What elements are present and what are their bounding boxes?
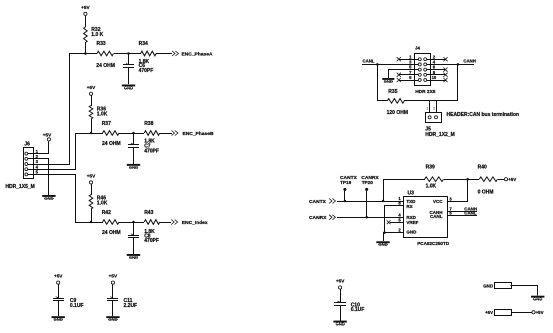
connector J6 body HDR_1X5_M [5, 148, 34, 191]
svg-text:CANL: CANL [363, 59, 375, 64]
svg-text:VREF: VREF [406, 220, 418, 225]
wire J4 pin 5 to ground [389, 70, 419, 79]
test point TP20 CANRX [361, 175, 379, 217]
svg-text:+5V: +5V [485, 310, 493, 315]
svg-text:1.0K: 1.0K [97, 201, 108, 207]
connector J6 designator [24, 141, 30, 147]
wire R32 to PhaseA node [85, 42, 87, 54]
svg-text:GND: GND [406, 230, 417, 235]
resistor R46 [89, 195, 108, 209]
svg-text:RS: RS [406, 204, 412, 209]
J6 pin numbers 1-5 [36, 149, 39, 175]
note CAN bus termination [447, 112, 520, 118]
wire TXD to R39 [383, 179, 385, 201]
U3 pin names [406, 199, 443, 235]
power +5V (R36 pull-up) [87, 85, 96, 106]
net CANH (U3 pin 7) [447, 207, 477, 212]
net CANH (J4 pin 4) [427, 59, 476, 65]
port CANRX input [309, 215, 335, 221]
wire CANTX to U3 TXD [337, 201, 404, 203]
svg-text:24 OHM: 24 OHM [96, 63, 115, 69]
resistor R38 [144, 121, 160, 145]
ground (C10) [333, 321, 346, 327]
svg-text:GND: GND [533, 297, 542, 302]
svg-text:TP19: TP19 [340, 180, 352, 185]
port ENC_Index [171, 220, 208, 227]
J5 pin numbers [427, 106, 436, 110]
ground (C7) [127, 164, 140, 170]
resistor R42 [102, 210, 121, 236]
svg-text:1.0K: 1.0K [97, 111, 108, 117]
svg-text:J4: J4 [415, 45, 420, 50]
svg-text:0 OHM: 0 OHM [478, 189, 494, 195]
port ENC_PhaseA [172, 51, 213, 58]
junction C6/row A [127, 52, 130, 55]
svg-text:+5V: +5V [336, 279, 345, 284]
wire R38 to output [160, 133, 172, 135]
svg-text:24 OHM: 24 OHM [102, 230, 121, 236]
capacitor C10 [334, 279, 364, 321]
svg-text:+5V: +5V [508, 177, 516, 182]
svg-text:R37: R37 [102, 121, 111, 127]
net CANL (J4 pin 3) [362, 59, 418, 65]
capacitor C8 [128, 222, 159, 254]
svg-text:1: 1 [427, 106, 429, 110]
svg-text:2: 2 [433, 106, 435, 110]
svg-text:GND: GND [124, 85, 133, 90]
svg-text:TP20: TP20 [362, 180, 374, 185]
resistor R39 [425, 164, 444, 189]
wire U3 VCC [448, 180, 468, 202]
resistor R40 [478, 164, 498, 195]
junction R46/row C [90, 221, 93, 224]
resistor R35 [387, 89, 408, 116]
ground (C6) [122, 85, 135, 91]
svg-text:+5V: +5V [43, 133, 52, 138]
capacitor C9 [53, 274, 84, 316]
port GND module [483, 283, 511, 289]
junction TP19/TXD [344, 200, 347, 203]
ground (J4 pin 5) [382, 78, 394, 84]
junction RS/GND [383, 231, 386, 234]
no-connect J4 pin 2 [427, 57, 448, 61]
power +5V (C11) [0, 0, 1, 1]
wire R39 to R40 [444, 179, 479, 181]
svg-text:R38: R38 [144, 121, 153, 127]
wire R39 left [383, 179, 425, 181]
ground (C8) [127, 254, 140, 260]
J4 pin numbers [409, 54, 437, 80]
svg-text:ENC_PhaseB: ENC_PhaseB [183, 131, 214, 137]
wire J5 pin 1 stub [429, 101, 431, 112]
no-connect J4 pin 7 [397, 73, 418, 77]
wire R36 to PhaseB node [91, 119, 93, 133]
svg-text:CANTX: CANTX [309, 199, 327, 205]
svg-text:R35: R35 [388, 89, 397, 95]
svg-text:+5V: +5V [109, 274, 118, 279]
port ENC_PhaseB [172, 131, 214, 138]
no-connect J4 pin 9 [397, 78, 418, 82]
svg-text:R40: R40 [478, 164, 487, 170]
test point TP19 CANTX [340, 175, 358, 201]
junction CANL/R35 [376, 63, 379, 66]
svg-text:J6: J6 [24, 141, 30, 147]
svg-text:HDR_1X5_M: HDR_1X5_M [5, 184, 34, 190]
power +5V (R40) [498, 177, 516, 182]
wire J6 pin 5 to row C [34, 175, 76, 223]
svg-text:ENC_PhaseA: ENC_PhaseA [182, 52, 213, 58]
svg-text:CANRX: CANRX [309, 215, 327, 221]
no-connect J4 pin 8 [427, 73, 448, 77]
svg-text:HDR_1X2_M: HDR_1X2_M [425, 132, 454, 138]
power +5V (C10) [0, 0, 1, 1]
junction C7/row B [132, 132, 135, 135]
connector J5 body [426, 113, 442, 123]
svg-text:+5V: +5V [81, 5, 90, 10]
connector J4 designator [415, 45, 420, 50]
svg-text:0.1UF: 0.1UF [351, 307, 365, 313]
no-connect J4 pin 1 [397, 57, 418, 61]
capacitor C7 [128, 133, 159, 164]
svg-text:+5V: +5V [54, 274, 63, 279]
svg-text:R34: R34 [139, 41, 148, 47]
wire +5V port [511, 312, 532, 314]
wire R46 to Index node [91, 209, 93, 222]
resistor R33 [96, 41, 115, 69]
svg-text:CANH: CANH [463, 59, 475, 64]
wire U3 GND pin [383, 232, 404, 234]
svg-text:470PF: 470PF [139, 68, 154, 74]
wire row A to J6 pin 3 [34, 54, 70, 165]
svg-text:CANL: CANL [464, 211, 477, 216]
svg-text:0.1UF: 0.1UF [70, 303, 84, 309]
ground (J6 pin 2) [42, 195, 55, 201]
svg-text:R42: R42 [102, 210, 111, 216]
net CANL (U3 pin 6) [447, 211, 477, 216]
connector J5 designator [425, 127, 454, 138]
wire PhaseB row left segment [75, 133, 103, 135]
svg-text:GND: GND [483, 283, 493, 288]
connector J4 body HDR 2X5 [415, 54, 436, 96]
wire J6 pin 2 to ground [34, 159, 49, 196]
junction R32/row A [84, 52, 87, 55]
svg-text:PCA82C250TD: PCA82C250TD [417, 241, 450, 246]
ground (C9) [52, 316, 65, 322]
no-connect J4 pin 6 [427, 68, 448, 72]
U3 pin numbers [398, 196, 452, 232]
resistor R34 [139, 41, 157, 65]
wire row B to J6 pin 4 [34, 134, 76, 170]
no-connect U3 VREF [387, 220, 404, 224]
svg-text:ENC_Index: ENC_Index [182, 220, 208, 226]
ground (module port) [531, 296, 544, 302]
junction CANH/R35 [457, 63, 460, 66]
power +5V (module port) [532, 310, 544, 315]
svg-text:1.0K: 1.0K [426, 184, 437, 190]
junction R36/row B [90, 132, 93, 135]
resistor R32 [84, 27, 104, 43]
wire GND down [383, 233, 385, 241]
svg-text:R33: R33 [97, 41, 106, 47]
junction C8/row C [132, 221, 135, 224]
svg-text:470PF: 470PF [144, 238, 159, 244]
svg-text:+5V: +5V [87, 174, 96, 179]
wire J5 pin 2 stub [436, 101, 438, 112]
wire R37 to R38 [119, 133, 144, 135]
capacitor C6 [123, 54, 153, 84]
svg-text:HEADER:CAN bus termination: HEADER:CAN bus termination [447, 112, 520, 118]
svg-text:R39: R39 [426, 164, 435, 170]
svg-text:120 OHM: 120 OHM [387, 110, 408, 116]
svg-text:CANL: CANL [430, 214, 443, 219]
power +5V (C9) [0, 0, 1, 1]
resistor R37 [102, 121, 121, 147]
power +5V (J6 pin 1) [43, 133, 52, 141]
svg-text:HDR 2X5: HDR 2X5 [415, 89, 436, 95]
wire R35 to CANH [404, 64, 458, 101]
ground (U3) [376, 241, 389, 247]
svg-text:10: 10 [432, 75, 437, 80]
svg-text:+5V: +5V [536, 310, 544, 315]
ground (C11) [106, 316, 119, 322]
no-connect J4 pin 10 [427, 78, 448, 82]
wire J6 pin 1 to +5V [34, 142, 49, 154]
wire CANRX to U3 RXD [337, 217, 404, 219]
svg-text:24 OHM: 24 OHM [102, 141, 121, 147]
power +5V (R46 pull-up) [87, 174, 96, 196]
svg-text:R43: R43 [144, 210, 153, 216]
svg-text:+5V: +5V [87, 85, 96, 90]
resistor R36 [89, 106, 108, 120]
wire PhaseA row left segment [69, 53, 97, 55]
wire GND port [511, 286, 538, 296]
svg-text:U3: U3 [408, 191, 415, 197]
svg-text:GND: GND [335, 322, 344, 327]
wire R42 to R43 [119, 222, 144, 224]
junction TP20/RXD [365, 216, 368, 219]
port +5V module [485, 310, 511, 316]
svg-text:VCC: VCC [433, 199, 443, 204]
power +5V (R32 pull-up) [81, 5, 90, 27]
capacitor C11 [107, 274, 137, 316]
resistor R43 [144, 210, 160, 235]
junction R39/TXD [382, 200, 385, 203]
wire U3 RS to ground [385, 206, 404, 233]
port CANTX input [309, 199, 335, 206]
wire R33 to R34 [114, 53, 141, 55]
svg-text:1.0 K: 1.0 K [91, 32, 103, 38]
svg-text:470PF: 470PF [144, 148, 159, 154]
wire Index row left segment [75, 222, 103, 224]
wire CANL to R35 [378, 65, 388, 101]
svg-text:2.2UF: 2.2UF [124, 303, 138, 309]
junction R39/R40/VCC [466, 178, 469, 181]
wire R43 to output [160, 222, 171, 224]
wire R34 to output [156, 53, 172, 55]
op-amp U3 body PCA82C250TD [404, 191, 450, 247]
